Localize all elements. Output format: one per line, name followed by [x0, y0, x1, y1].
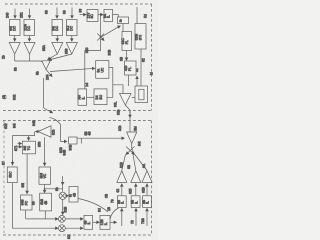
arrow BM1 to BM2	[93, 221, 100, 223]
block Mmid	[39, 167, 50, 184]
block L1	[21, 195, 33, 210]
antenna arrow 3	[146, 209, 148, 227]
buffer amp U	[120, 94, 132, 106]
block B	[104, 10, 113, 22]
osc inner rect	[139, 89, 144, 100]
block F3	[143, 196, 152, 208]
wire E to C	[122, 24, 124, 32]
Mmid out / branch	[44, 184, 46, 192]
block E	[118, 17, 129, 24]
mixer M1	[59, 192, 66, 199]
arrow box3 to amp3	[56, 36, 58, 42]
wire amp4 diagonal	[49, 54, 72, 60]
splitter legs	[122, 155, 126, 171]
wire NV to BU	[87, 96, 94, 98]
TR diag arrow	[44, 108, 53, 113]
wire RB to T5	[77, 137, 124, 139]
input arrow block A	[80, 14, 87, 16]
switch arm	[46, 70, 52, 77]
wire to buffer amp	[113, 85, 123, 94]
splitter X	[131, 144, 133, 148]
L1 down to bus	[25, 210, 27, 219]
input arrow 3	[56, 8, 58, 19]
arrow box1 to amp1	[14, 36, 16, 42]
BB chain down	[26, 154, 28, 194]
arrow into Tc	[146, 184, 148, 196]
amp Tb	[131, 171, 141, 183]
wire X down left	[85, 51, 101, 89]
antenna arrow 2	[135, 209, 137, 227]
arrow into BL	[12, 160, 14, 165]
block C	[122, 32, 132, 51]
block BB	[22, 141, 35, 154]
L2 down to bus	[44, 211, 46, 217]
block A	[87, 10, 98, 22]
arrow A to B	[98, 14, 103, 16]
block BU	[94, 89, 107, 105]
M3 out	[65, 227, 83, 229]
M2 out	[65, 218, 83, 220]
wire C down to F	[126, 51, 128, 61]
wire D down to osc	[140, 49, 142, 86]
amp A2	[24, 43, 35, 55]
block F2	[131, 196, 140, 208]
BM2 out	[110, 221, 117, 223]
leader arc	[78, 199, 108, 213]
block RM	[69, 187, 78, 203]
wire amp3 diagonal	[48, 54, 58, 60]
wire B right	[113, 14, 117, 16]
wire BL down	[13, 183, 59, 229]
input arrow 2	[29, 9, 31, 19]
dashed border top section	[3, 4, 152, 111]
block DAC2	[24, 20, 35, 36]
M1 feed	[62, 176, 64, 185]
wire into block D from top	[136, 7, 138, 24]
block D	[135, 24, 146, 50]
osc block H	[135, 86, 148, 103]
BB side arrows	[18, 143, 22, 145]
amp A4	[66, 43, 77, 55]
amp Ta	[117, 171, 127, 183]
wire amp2 down	[29, 54, 31, 61]
bus to mixer M2	[26, 218, 59, 220]
wire B to block E	[117, 15, 118, 17]
amp A1	[9, 43, 20, 55]
antenna arrow 1	[121, 209, 123, 227]
wire osc to amp	[132, 97, 135, 99]
block BM2	[100, 215, 110, 229]
M1 down to M2	[62, 199, 64, 214]
T6 out wire	[36, 131, 39, 133]
mixer M3	[59, 225, 66, 232]
block DAC4	[67, 20, 78, 36]
amp A3	[52, 43, 63, 55]
amp Tc	[142, 171, 152, 183]
block NV	[78, 89, 87, 105]
M1 out to RM	[66, 195, 68, 197]
wire amp1 down	[14, 54, 16, 61]
block RB	[69, 137, 77, 144]
LO line down	[125, 105, 130, 132]
wire T6 base down	[44, 137, 46, 165]
arrow into Tb	[135, 184, 137, 196]
label 602	[3, 123, 6, 126]
block L2	[40, 193, 52, 211]
wire RC right loop	[107, 68, 113, 98]
wire osc up arrow	[136, 76, 138, 86]
block BM1	[84, 215, 93, 229]
input arrow 1	[14, 9, 16, 19]
block BL	[7, 167, 17, 183]
summing amp S	[42, 61, 50, 70]
arrow box4 to amp4	[71, 36, 73, 42]
TR curve into section2	[50, 118, 61, 125]
wire F to osc	[128, 75, 130, 86]
mixer M2	[59, 216, 66, 223]
box BB arrow down	[28, 136, 30, 141]
switch cross X	[97, 34, 104, 41]
wire bus to summer	[15, 61, 45, 63]
block DAC1	[10, 20, 21, 36]
wire down to RB	[61, 125, 67, 142]
leader arc 2	[110, 208, 119, 219]
amp T5	[127, 132, 137, 144]
block F1	[118, 196, 127, 208]
arrow box2 to amp2	[28, 36, 30, 42]
dashed border bottom section	[3, 121, 152, 236]
wire down from AB link	[100, 15, 102, 51]
block RC	[96, 61, 109, 79]
input arrow 4	[71, 8, 73, 19]
TR wire down	[43, 78, 45, 108]
arrow into Ta	[121, 184, 123, 196]
stub junction	[80, 138, 82, 143]
wire to RC block	[50, 68, 95, 71]
block DAC3	[52, 20, 63, 36]
block F	[125, 61, 137, 75]
amp T6 left	[38, 126, 51, 137]
switch arm to box E	[101, 26, 121, 37]
